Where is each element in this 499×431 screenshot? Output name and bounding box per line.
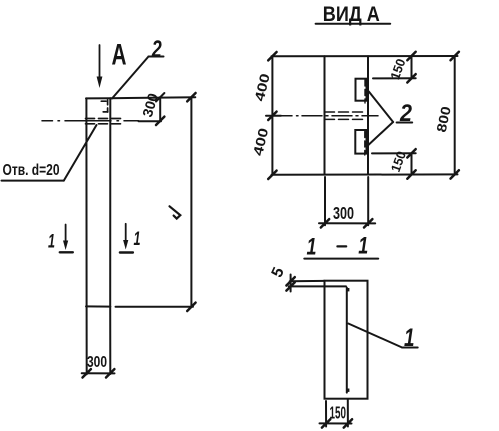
svg-text:1: 1 [48,232,55,253]
section body outline (1-1) [325,281,368,399]
dimension 800 (view A) [434,52,459,179]
hole hidden lines (view A) [325,112,363,119]
centerline (view A) [278,115,378,117]
extension line groove bottom (view A) [372,152,416,154]
title ВИД А [316,3,391,26]
svg-text:300: 300 [333,203,354,223]
svg-text:1: 1 [307,234,317,261]
dimension 300 (bottom, left view) [82,307,115,378]
hole hidden lines (Отв. d=20) [86,119,121,124]
svg-text:1: 1 [404,324,415,352]
column outline (left view) [86,98,110,306]
section mark 1 (right side) [120,224,141,253]
section mark 1 (left side) [48,225,73,253]
dimension 5 (section) [269,265,346,292]
top extension line (view A) [272,55,458,57]
groove hidden outline (element 2, side view) [101,100,107,112]
top edge extension (section) [290,280,325,282]
groove 2 lower (view A) [355,130,366,155]
view direction arrow А [97,45,103,88]
dimension L (length, left view) [170,93,196,311]
centerline (hole axis) [42,120,139,122]
svg-text:150: 150 [330,403,347,423]
svg-text:300: 300 [87,354,107,371]
rebar line with end dots (section) [346,288,349,393]
dimension 300 (top, left view) [139,91,165,125]
svg-text:2: 2 [151,36,162,63]
dimension 300 (below view A) [319,177,375,228]
dimension 150 bottom (view A) [388,149,416,179]
svg-text:А: А [112,39,127,72]
label 2 with leader (left view) [112,36,164,99]
svg-text:1: 1 [134,229,141,250]
bottom extension line (view A) [272,173,458,175]
label Отв. d=20 with leader [2,125,97,181]
svg-text:Отв. d=20: Отв. d=20 [3,162,60,179]
svg-text:1: 1 [358,233,368,260]
dimension 150 (section) [320,399,353,428]
title 1 - 1 [304,233,378,261]
label 1 with leader (section) [348,324,417,353]
bottom edge extension line [116,306,194,308]
dimension 400/400 (view A left) [250,52,281,179]
groove 2 upper (view A) [356,79,367,103]
top edge extension line [110,97,195,98]
label 2 with V-leader (view A) [368,91,412,145]
dimension 150 top (view A) [387,52,415,83]
svg-text:ВИД А: ВИД А [323,3,380,26]
extension line groove top (view A) [373,77,416,79]
panel outline (view A) [325,56,369,174]
